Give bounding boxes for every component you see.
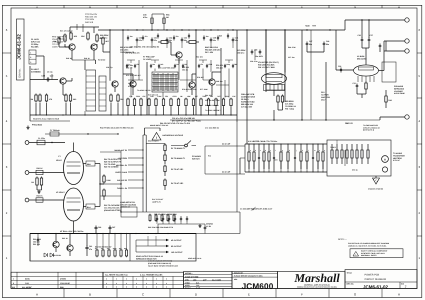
- resistor RB8: [178, 98, 180, 99]
- valve V3A pins: [265, 84, 267, 90]
- resistor RB5: [155, 98, 157, 99]
- valve V1 envelope: [64, 152, 84, 185]
- gnd sym top: [27, 126, 29, 128]
- capacitor C47: [306, 41, 308, 43]
- note warning box: [350, 249, 403, 258]
- capacitor CP3: [168, 216, 170, 218]
- capacitor C10: [47, 77, 49, 79]
- svg-text:2K7: 2K7: [217, 95, 220, 98]
- wire rail J: [301, 30, 303, 120]
- resistor RBias3: [161, 214, 163, 215]
- valve V2 internal grid: [67, 197, 81, 199]
- wire rail J2: [310, 30, 312, 120]
- wire y212 left: [121, 211, 146, 213]
- svg-text:4: 4: [419, 119, 421, 123]
- stray mark: [251, 207, 257, 211]
- svg-text:47u: 47u: [139, 39, 142, 42]
- svg-text:R79 4K7: R79 4K7: [197, 76, 204, 79]
- valve V1 internal grid: [67, 161, 81, 163]
- resistor RB10: [193, 98, 195, 99]
- ladder component LC14: [322, 144, 324, 152]
- wire mains to power box: [146, 211, 240, 213]
- svg-text:C23 22u 63V: C23 22u 63V: [85, 13, 98, 16]
- svg-text:56K: 56K: [120, 98, 124, 101]
- svg-text:A3-2 CAP: A3-2 CAP: [222, 142, 231, 145]
- capacitor CP6: [186, 216, 188, 218]
- drawing number tab: [17, 19, 25, 80]
- svg-text:G: G: [354, 292, 357, 296]
- svg-text:PIN 1-2-3 HT FEED: PIN 1-2-3 HT FEED: [258, 66, 275, 69]
- svg-text:C42: C42: [169, 36, 172, 39]
- svg-text:C67 1n: C67 1n: [128, 82, 134, 85]
- ladder component LC8: [287, 144, 289, 152]
- svg-text:22n: 22n: [152, 63, 155, 66]
- svg-text:C43: C43: [184, 36, 187, 39]
- zone ticks left: [2, 52, 11, 54]
- wire RM feeds: [146, 143, 165, 145]
- capacitor CU1: [127, 35, 129, 37]
- svg-text:10K: 10K: [81, 35, 85, 38]
- capacitor CP4: [174, 216, 176, 218]
- svg-text:P13: P13: [208, 155, 211, 158]
- wire heater box joins: [344, 150, 346, 166]
- heater box res 342: [341, 144, 343, 150]
- svg-text:C45: C45: [213, 36, 216, 39]
- svg-text:+430: +430: [305, 25, 310, 28]
- zone ticks bottom: [63, 289, 65, 298]
- svg-text:DRG No.: DRG No.: [347, 283, 355, 286]
- resistor RB2: [134, 98, 136, 99]
- svg-text:A: A: [36, 6, 38, 9]
- svg-text:2: 2: [419, 211, 421, 215]
- resistor RH2: [186, 41, 199, 44]
- valve V4 envelope: [354, 65, 379, 76]
- svg-text:R46 1K8: R46 1K8: [85, 21, 94, 24]
- svg-text:8: 8: [116, 286, 117, 289]
- svg-text:4K7: 4K7: [195, 95, 198, 98]
- resistor RH1: [158, 41, 171, 44]
- connector terminal J2: [405, 39, 409, 43]
- svg-text:H: H: [398, 292, 400, 296]
- revision table columns right: [112, 276, 114, 288]
- svg-text:R45 10K 1W: R45 10K 1W: [85, 16, 97, 19]
- wire y152 link: [100, 151, 121, 153]
- svg-text:C68 10n: C68 10n: [216, 80, 222, 83]
- svg-text:47K: 47K: [136, 63, 140, 66]
- svg-text:ALL RESTR VALUES IN Ω: ALL RESTR VALUES IN Ω: [105, 274, 128, 277]
- svg-text:R68 82K C60 47u: R68 82K C60 47u: [205, 104, 219, 107]
- resistor R21: [36, 177, 38, 179]
- tone stack extra hatch: [153, 73, 178, 91]
- svg-text:R1 TO MAINS T1: R1 TO MAINS T1: [171, 147, 185, 150]
- svg-text:10u: 10u: [206, 35, 209, 38]
- svg-text:10u: 10u: [235, 39, 238, 42]
- svg-text:DIA-No.: DIA-No.: [19, 68, 22, 78]
- left stub wires: [51, 74, 53, 80]
- warning triangle hazard: [152, 133, 161, 141]
- svg-text:F1 T500mA: F1 T500mA: [50, 129, 60, 132]
- svg-text:F: F: [301, 6, 303, 9]
- resistor R7: [39, 94, 41, 96]
- connector P1 pins: [29, 50, 36, 64]
- svg-text:B: B: [89, 6, 91, 9]
- capacitor C59: [251, 49, 253, 51]
- capacitor CM6: [182, 64, 184, 66]
- svg-text:2: 2: [116, 282, 117, 285]
- wire heater bus: [30, 114, 237, 116]
- svg-text:CC 600 AMP PCB CIRCUIT JCM6-: CC 600 AMP PCB CIRCUIT JCM6-61-07: [240, 208, 272, 211]
- wire V3A cathode: [284, 30, 286, 73]
- svg-text:NFB LOOP R85 100K: NFB LOOP R85 100K: [158, 67, 176, 70]
- svg-text:6: 6: [419, 28, 421, 32]
- svg-text:P12 HT SEC 330-0-330V TO: P12 HT SEC 330-0-330V TO RECT D1-D4: [100, 127, 133, 130]
- connector terminal J1: [405, 18, 409, 22]
- svg-text:C87: C87: [112, 226, 115, 229]
- heater box resistor 368: [367, 144, 369, 150]
- svg-text:Marshall: Marshall: [293, 271, 340, 285]
- svg-text:8A4: 8A4: [87, 206, 91, 209]
- node fuse junction: [87, 133, 88, 134]
- valve V4 pins: [357, 76, 359, 82]
- svg-text:C37: C37: [370, 34, 373, 37]
- svg-text:5/98: 5/98: [60, 286, 64, 289]
- wire C47 gnd: [306, 47, 308, 53]
- svg-text:1M: 1M: [180, 95, 183, 98]
- ladder component LC11: [306, 144, 308, 152]
- svg-text:C53 100n R61 47K C54 10n R6: C53 100n R61 47K C54 10n R62 1M: [130, 46, 159, 49]
- wire C48 gnd: [323, 47, 325, 53]
- svg-text:4: 4: [136, 278, 137, 281]
- wire hazard link: [145, 127, 161, 129]
- svg-text:C70 22u 63V: C70 22u 63V: [241, 105, 253, 108]
- svg-text:10n: 10n: [130, 35, 133, 38]
- resistor R2: [70, 32, 72, 34]
- svg-text:470n: 470n: [143, 16, 148, 19]
- svg-text:PV01 8532: PV01 8532: [32, 124, 43, 127]
- transistor TR7: [189, 82, 195, 88]
- resistor RB7: [170, 98, 172, 99]
- svg-text:220K: 220K: [136, 95, 141, 98]
- wire 212 down: [239, 212, 241, 234]
- svg-text:1: 1: [419, 256, 421, 260]
- resistor R11: [110, 94, 112, 96]
- svg-text:C46: C46: [235, 36, 238, 39]
- transistor TR10: [67, 245, 73, 251]
- svg-text:HT RAIL +430V C85 C86 50: HT RAIL +430V C85 C86 50u: [60, 230, 83, 233]
- marshall block outline: [278, 272, 346, 289]
- resistor R1: [64, 34, 66, 36]
- wire ladder feed left: [240, 157, 245, 159]
- svg-text:47u: 47u: [89, 248, 92, 251]
- ladder component LC7: [280, 144, 282, 152]
- resistor RB9: [185, 98, 187, 99]
- diode D1: [44, 253, 48, 257]
- svg-text:DENBIGH RD, BLETCHLEY, MILTON: DENBIGH RD, BLETCHLEY, MILTON KEYNES MK1…: [297, 287, 337, 289]
- svg-text:6V3 4A: 6V3 4A: [352, 169, 358, 172]
- svg-text:4-8-16 OHM: 4-8-16 OHM: [394, 92, 405, 95]
- svg-text:1: 1: [6, 256, 8, 260]
- svg-text:100K: 100K: [157, 95, 162, 98]
- svg-text:C51 47u C52 47u R88 10K: C51 47u C52 47u R88 10K: [172, 117, 196, 120]
- resistor RP4: [114, 249, 116, 250]
- power box divider: [129, 234, 131, 262]
- svg-text:D: D: [195, 292, 198, 296]
- valve V3A envelope: [262, 73, 287, 85]
- svg-text:10u: 10u: [213, 39, 216, 42]
- svg-text:a: a: [250, 150, 251, 152]
- svg-text:12AX7: 12AX7: [56, 159, 62, 162]
- svg-text:56K: 56K: [234, 63, 238, 66]
- wire V3A link: [336, 69, 354, 71]
- wire rail F lower: [236, 122, 238, 212]
- wire R5 down: [102, 46, 104, 53]
- resistor R26: [103, 175, 105, 177]
- svg-text:CHASSIS STUD M6: CHASSIS STUD M6: [368, 188, 383, 191]
- svg-text:C1 470n: C1 470n: [38, 137, 45, 140]
- svg-text:H: H: [398, 6, 400, 9]
- svg-text:C/23: C/23: [25, 282, 29, 285]
- svg-text:R73 470K C63 4n7: R73 470K C63 4n7: [126, 74, 141, 77]
- svg-text:6B4: 6B4: [87, 163, 91, 166]
- resistor RP2: [102, 249, 104, 250]
- wire mid row links: [127, 59, 135, 61]
- capacitor CM5: [174, 64, 176, 66]
- ladder component LC2: [253, 144, 255, 152]
- svg-text:8: 8: [166, 286, 167, 289]
- wire fuse line: [45, 133, 118, 135]
- svg-text:MODEL:: MODEL:: [185, 272, 193, 275]
- approval block rows: [184, 274, 233, 276]
- wire mains branch 4: [128, 171, 143, 173]
- component C1 box: [37, 140, 45, 145]
- svg-text:LIVE FEED: LIVE FEED: [118, 157, 128, 160]
- wire CN3: [29, 199, 64, 201]
- capacitor CP2: [162, 216, 164, 218]
- node J4 wire joints: [301, 119, 302, 120]
- svg-text:6.3V AC: 6.3V AC: [393, 159, 401, 162]
- wire rail F: [236, 30, 238, 122]
- label V2 anode: [86, 204, 95, 209]
- resistor RB15: [230, 98, 232, 99]
- capacitor CU2: [142, 35, 144, 37]
- wire HT bus: [98, 29, 345, 31]
- svg-text:50u: 50u: [326, 43, 329, 46]
- svg-text:2: 2: [126, 282, 127, 285]
- small box comb: [121, 207, 137, 217]
- wire rail A: [109, 30, 111, 52]
- wire mains branch 3: [128, 164, 143, 166]
- resistor RB11: [200, 98, 202, 99]
- svg-text:c: c: [260, 150, 261, 152]
- svg-text:2K2: 2K2: [73, 98, 76, 101]
- svg-text:C9 47p: C9 47p: [47, 71, 53, 74]
- svg-text:HEATER 6.3V AC TWISTED PAI: HEATER 6.3V AC TWISTED PAIR: [33, 118, 60, 121]
- ladder component LC1: [248, 144, 250, 152]
- svg-text:R47 47K C25 1n: R47 47K C25 1n: [60, 30, 73, 33]
- capacitor CU5: [188, 33, 190, 35]
- svg-text:R20 1K: R20 1K: [37, 167, 44, 170]
- capacitor CM10: [232, 64, 234, 66]
- resistor R13: [58, 37, 60, 39]
- valve V3A grid detail: [266, 75, 282, 78]
- resistor R44: [365, 82, 367, 84]
- resistor RP6: [126, 249, 128, 250]
- wire V1 anode: [84, 163, 87, 165]
- capacitor C37: [368, 37, 370, 39]
- svg-text:R2 TO MAINS T1: R2 TO MAINS T1: [171, 157, 185, 160]
- wire stub above bus 2: [163, 14, 165, 30]
- capacitor CM3: [150, 64, 152, 66]
- connector terminal J3: [405, 49, 409, 53]
- svg-text:f: f: [275, 149, 276, 152]
- svg-text:2: 2: [6, 211, 8, 215]
- svg-text:2: 2: [166, 282, 167, 285]
- node CN1 junction: [51, 142, 52, 143]
- wire HT2 link top: [205, 145, 245, 147]
- svg-text:C57 10n: C57 10n: [288, 56, 294, 59]
- speaker section verticals: [135, 240, 137, 252]
- resistor R9: [65, 94, 67, 96]
- svg-text:TO GRID V1B P9: TO GRID V1B P9: [137, 89, 150, 92]
- svg-text:47u: 47u: [154, 39, 157, 42]
- svg-text:R64 150K: R64 150K: [205, 94, 213, 97]
- svg-text:4: 4: [106, 278, 107, 281]
- wire R13: [58, 45, 60, 48]
- svg-text:d: d: [265, 149, 266, 152]
- capacitor CP8: [109, 225, 111, 227]
- resistor RP1: [96, 249, 98, 250]
- svg-text:C48: C48: [326, 40, 329, 43]
- svg-text:4: 4: [166, 278, 167, 281]
- switch SW1 standby: [185, 144, 188, 147]
- capacitor CM2: [134, 64, 136, 66]
- svg-text:1M: 1M: [31, 98, 34, 101]
- svg-text:MARSHALL AMPLIFICATION plc: MARSHALL AMPLIFICATION plc: [304, 283, 330, 286]
- connector bracket P2: [86, 70, 96, 111]
- svg-text:FX LOOP: FX LOOP: [143, 58, 152, 61]
- wire mains branch 2: [128, 157, 143, 159]
- capacitor C81: [86, 245, 88, 247]
- resistor RBias4: [167, 214, 169, 215]
- svg-text:R65: R65: [219, 35, 222, 38]
- svg-text:4: 4: [6, 119, 8, 123]
- transistor TR2: [91, 44, 97, 50]
- valve V3A pin box: [264, 85, 285, 91]
- svg-text:6.3V HEATER CHAIN C73-C78: 6.3V HEATER CHAIN C73-C78 100n: [248, 140, 277, 143]
- wire power feed left: [37, 234, 39, 239]
- ladder component LC5: [268, 144, 270, 152]
- svg-text:C81: C81: [89, 245, 92, 248]
- svg-text:R63 1K5: R63 1K5: [196, 56, 203, 59]
- resistor R82: [282, 95, 284, 97]
- svg-text:N.T.S.: N.T.S.: [196, 286, 201, 289]
- svg-text:OMP-V2: OMP-V2: [345, 122, 354, 125]
- power box inner dots: [55, 233, 56, 234]
- title block outline: [345, 270, 417, 289]
- svg-text:6V3: 6V3: [274, 159, 277, 162]
- ladder component LC10: [300, 144, 302, 152]
- valve V4 grid detail: [359, 67, 374, 70]
- wire standby: [171, 145, 185, 147]
- transistor TR6: [130, 81, 136, 87]
- svg-text:R76 6K8 C65 470p: R76 6K8 C65 470p: [182, 88, 197, 91]
- svg-text:47n: 47n: [200, 63, 203, 66]
- wire V2 to power bus: [73, 221, 75, 234]
- svg-text:e: e: [270, 150, 271, 152]
- wire HT2 link bottom: [205, 173, 245, 175]
- svg-text:68K: 68K: [187, 95, 191, 98]
- motor/fan M1: [382, 156, 389, 163]
- note warning triangle: [353, 251, 359, 256]
- wire V3A anode: [265, 30, 267, 73]
- approval block outline: [184, 272, 233, 289]
- revision table outline: [11, 272, 184, 288]
- wire V4 anode to J2: [379, 70, 385, 72]
- heater box res 337: [336, 144, 338, 150]
- svg-text:C44 47u: C44 47u: [100, 37, 108, 40]
- svg-text:C66 22n: C66 22n: [216, 66, 223, 69]
- zone ticks right: [417, 52, 422, 54]
- resistor R46b: [385, 95, 387, 97]
- svg-text:RV2 22K LIN: RV2 22K LIN: [148, 94, 159, 97]
- wire TR6: [132, 87, 134, 95]
- svg-text:10n 400V: 10n 400V: [255, 55, 264, 58]
- svg-text:8: 8: [106, 286, 107, 289]
- svg-text:SWITCH: SWITCH: [192, 158, 200, 161]
- ladder component LC12: [312, 144, 314, 157]
- svg-text:CN-7: CN-7: [321, 98, 325, 101]
- heater box right: [327, 140, 391, 176]
- wire mains branch 5: [128, 179, 143, 181]
- svg-text:D: D: [195, 6, 197, 9]
- node heater bus dots: [35, 114, 36, 115]
- resistor RA2: [163, 18, 165, 24]
- resistor RP3: [108, 249, 110, 250]
- resistor RB1: [127, 98, 129, 99]
- svg-text:C36: C36: [358, 34, 361, 37]
- svg-text:ISSUED BY: ISSUED BY: [234, 271, 244, 274]
- wire stub above bus 1: [151, 14, 153, 30]
- resistor stack RM4: [164, 179, 166, 181]
- svg-text:50u: 50u: [309, 43, 312, 46]
- wire into power box top: [157, 224, 159, 234]
- transistor TR9: [53, 241, 59, 247]
- svg-text:4/96: 4/96: [193, 278, 196, 281]
- capacitor CM9: [224, 64, 226, 66]
- svg-text:JCM ISSUE: JCM ISSUE: [60, 282, 70, 285]
- capacitor C61: [259, 49, 261, 51]
- power box left stub: [29, 234, 31, 262]
- svg-text:R23 1K: R23 1K: [37, 195, 44, 198]
- svg-text:NOTE:—: NOTE:—: [338, 238, 348, 241]
- valve V2 envelope: [64, 188, 84, 221]
- heater box resistor 362: [361, 144, 363, 150]
- capacitor CM1: [126, 64, 128, 66]
- svg-text:SPKR OUT 4-8-16: SPKR OUT 4-8-16: [188, 257, 201, 260]
- resistor R23 box: [36, 198, 43, 202]
- svg-text:4K7: 4K7: [105, 40, 108, 43]
- svg-text:2: 2: [136, 282, 137, 285]
- wire rail I: [284, 30, 286, 102]
- svg-text:3: 3: [30, 61, 31, 64]
- svg-text:8: 8: [126, 286, 127, 289]
- svg-text:E: E: [248, 6, 250, 9]
- revision table columns left: [16, 272, 18, 288]
- capacitor CP1: [156, 216, 158, 218]
- capacitor CM4: [158, 64, 160, 66]
- wire mains branch 1: [128, 149, 143, 151]
- svg-text:22u: 22u: [176, 35, 179, 38]
